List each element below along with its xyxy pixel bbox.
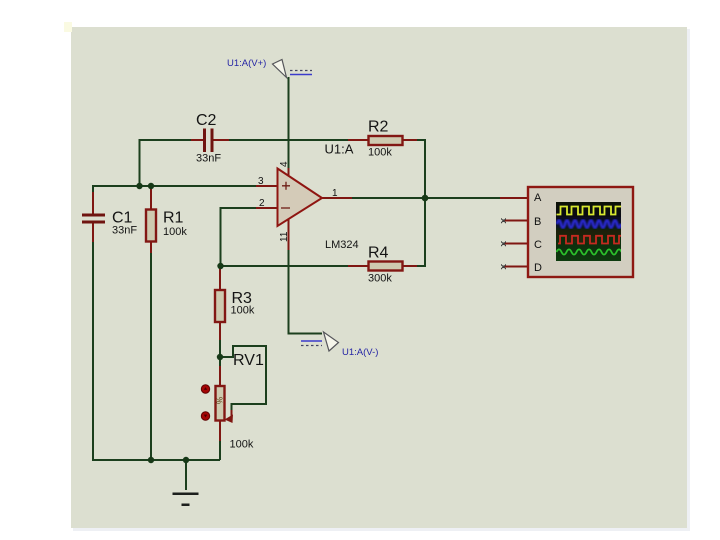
wire: op-amp pin2 to R4/R3 node [221, 208, 259, 266]
junction dot at node3 / C2 branch [136, 183, 142, 189]
wire: ground stub [185, 460, 187, 490]
pin: op-amp pin2 [256, 207, 278, 209]
junction dot at bottom rail / ground [183, 457, 189, 463]
resistor R4 [369, 262, 403, 271]
pin: RV1 end pins [219, 366, 221, 441]
junction dot at R3/RV1 node [217, 354, 223, 360]
potentiometer RV1 [216, 386, 234, 423]
svg-text:C: C [534, 239, 542, 251]
pin: R4 pins [348, 265, 417, 267]
svg-text:2: 2 [259, 198, 265, 209]
wire: RV1 bottom to ground rail [219, 440, 221, 460]
wire: V+ terminal down to op-amp pin4 [288, 77, 290, 170]
pin: scope channel A pin [500, 197, 528, 199]
scope trace channel B blue wave [557, 221, 621, 228]
scope trace channel C red square wave [558, 236, 621, 244]
capacitor C1 [82, 214, 105, 224]
pin: scope channel B stub [501, 219, 528, 224]
oscilloscope body [528, 187, 633, 277]
RV1 adjust button top [201, 385, 209, 393]
resistor R3 [215, 290, 225, 322]
svg-text:100k: 100k [163, 226, 187, 238]
svg-text:11: 11 [279, 231, 290, 242]
scope trace channel A yellow square wave [557, 207, 623, 215]
wire: op-amp output to scope channel A [350, 197, 508, 199]
svg-text:100k: 100k [230, 439, 254, 451]
svg-text:R4: R4 [368, 245, 389, 262]
wire: R3 bottom to RV1 node [219, 338, 221, 368]
svg-text:%: % [216, 397, 225, 404]
svg-text:300k: 300k [368, 273, 392, 285]
pin: C1 pins [92, 192, 94, 242]
wire: R1 bottom to bottom rail [150, 252, 152, 460]
wire: R2 right pin down to R4 right pin (vertical x=425) [403, 140, 425, 266]
svg-text:R1: R1 [163, 210, 184, 227]
resistor R1 [146, 210, 156, 242]
pin: op-amp pin4 power [288, 168, 290, 177]
junction dot at bottom rail / R1 [148, 457, 154, 463]
svg-text:U1:A(V+): U1:A(V+) [227, 58, 266, 69]
junction dot at node3 / R1 top [148, 183, 154, 189]
capacitor C2 [203, 129, 214, 153]
pin: R1 pins [150, 186, 152, 253]
op-amp U1:A [278, 169, 323, 227]
wire: node3 horizontal rail y=186 [93, 186, 258, 195]
pin: R2 pins [348, 139, 417, 141]
pin: op-amp pin3 [256, 185, 278, 187]
svg-text:3: 3 [258, 176, 264, 187]
wire: RV1 wiper loop [220, 346, 266, 413]
pin: scope channel C stub [501, 242, 528, 247]
svg-text:33nF: 33nF [112, 225, 137, 237]
svg-text:RV1: RV1 [233, 352, 264, 369]
svg-text:100k: 100k [231, 305, 255, 317]
schematic sheet canvas [71, 27, 687, 528]
ground [173, 493, 199, 507]
wire: op-amp pin11 down to V- terminal [289, 248, 323, 334]
svg-text:C2: C2 [196, 112, 217, 129]
resistor R2 [369, 136, 403, 145]
pin: op-amp pin11 power [288, 218, 290, 250]
RV1 adjust button bottom [201, 412, 209, 420]
wire: C1 bottom to bottom rail [93, 240, 220, 460]
scope trace channel D green sine wave [557, 249, 622, 254]
svg-text:U1:A: U1:A [325, 142, 354, 157]
svg-text:D: D [534, 262, 542, 274]
pin: R3 pins [219, 266, 221, 340]
junction dot at output node [422, 195, 429, 202]
pin: C2 pins [191, 139, 229, 141]
svg-text:4: 4 [279, 161, 290, 167]
svg-text:A: A [534, 192, 542, 204]
pin: op-amp output pin1 [322, 197, 352, 199]
pin: scope channel D stub [501, 265, 528, 270]
svg-text:1: 1 [332, 188, 338, 199]
svg-text:33nF: 33nF [196, 153, 221, 165]
wire: C2 right plate to R2 left pin [212, 139, 368, 141]
svg-text:B: B [534, 216, 541, 228]
power terminal U1:A(V-) [301, 332, 339, 351]
svg-text:U1:A(V-): U1:A(V-) [342, 347, 378, 358]
svg-text:LM324: LM324 [325, 239, 359, 251]
power terminal U1:A(V+) [273, 60, 313, 78]
junction dot at pin2/R4/R3 node [217, 263, 223, 269]
svg-text:R2: R2 [368, 119, 389, 136]
svg-text:100k: 100k [368, 147, 392, 159]
scope screen [556, 202, 621, 261]
wire: R4 left pin to pin2 node [220, 265, 368, 267]
wire: node3 top rail to C2 left plate [140, 140, 205, 187]
